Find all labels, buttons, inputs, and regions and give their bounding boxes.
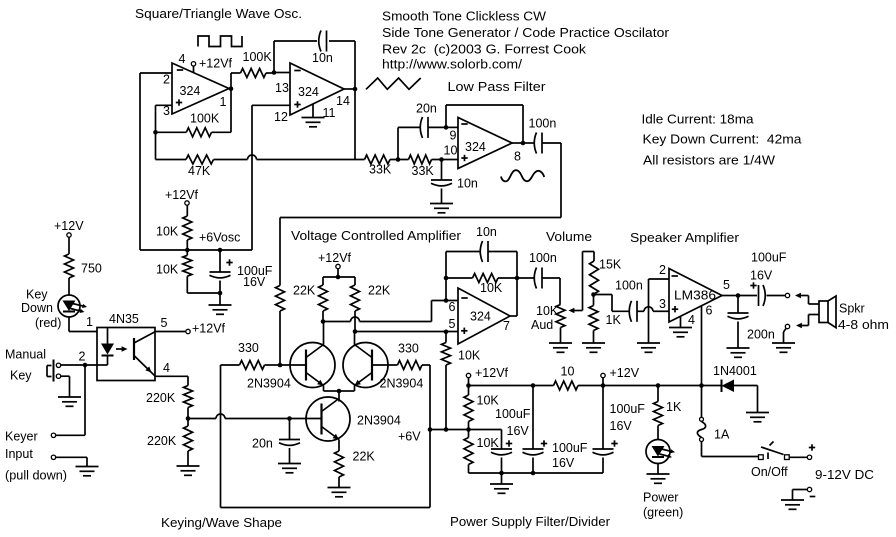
svg-text:100uF: 100uF: [610, 402, 646, 416]
svg-text:2: 2: [163, 73, 170, 87]
note key down current: [643, 133, 802, 147]
wire divider bottom: [187, 292, 220, 294]
label (green): [643, 506, 683, 520]
resistor 100K (U1A feedback): [156, 128, 232, 137]
svg-text:6: 6: [449, 300, 456, 314]
svg-text:100K: 100K: [243, 50, 273, 64]
label 10K pot: [536, 304, 559, 318]
svg-text:1: 1: [220, 95, 227, 109]
svg-text:10K: 10K: [480, 281, 503, 295]
svg-text:+12Vf: +12Vf: [192, 322, 226, 336]
node +6V keying: [428, 427, 433, 432]
svg-text:330: 330: [238, 341, 259, 355]
svg-text:4N35: 4N35: [109, 312, 139, 326]
wire U1D feedback left: [445, 252, 447, 301]
ground U2 pin2: [637, 343, 660, 352]
capacitor 100uF (12V filter): [593, 386, 618, 474]
svg-text:Keyer: Keyer: [5, 430, 38, 444]
svg-text:Keying/Wave Shape: Keying/Wave Shape: [161, 516, 282, 530]
label 22K Q3: [353, 450, 376, 464]
ground 1K volume: [582, 343, 605, 352]
rail psu bottom: [469, 472, 604, 474]
wire pin13: [274, 72, 290, 74]
wire U2 output: [722, 293, 740, 298]
svg-text:16V: 16V: [507, 424, 530, 438]
node pin13 junction: [272, 70, 277, 75]
label (red): [35, 316, 61, 330]
label 9-12V DC: [815, 468, 874, 482]
capacitor 20n (keying): [279, 419, 300, 464]
opto pin label 2: [79, 350, 86, 364]
resistor 10K lower (osc divider): [183, 250, 192, 293]
wire 20n branch vertical: [397, 127, 399, 159]
label 100n VCA: [529, 251, 557, 265]
resistor 100K (U1A out to U1B): [231, 69, 274, 78]
LED key down (red): [58, 295, 87, 317]
U1C pin label 8: [514, 150, 521, 164]
svg-text:http://www.solorb.com/: http://www.solorb.com/: [382, 58, 523, 72]
battery + terminal: [807, 444, 815, 459]
label 10n LPF: [457, 177, 478, 191]
wire fuse to switch: [702, 442, 759, 457]
svg-text:14: 14: [336, 94, 350, 108]
title line 1: [382, 10, 546, 24]
node rail 12Vf: [466, 383, 471, 388]
svg-text:Input: Input: [5, 447, 33, 461]
switch On/Off: [759, 442, 790, 460]
label 16V c1: [507, 424, 530, 438]
label Key: [26, 288, 48, 302]
wire LED to opto pin1: [69, 317, 97, 332]
battery - terminal: [793, 487, 816, 500]
svg-text:16V: 16V: [243, 275, 266, 289]
svg-text:+12V: +12V: [54, 219, 84, 233]
ground manual key: [58, 397, 81, 406]
node fb pin6: [444, 298, 449, 303]
label 15K: [599, 258, 622, 272]
wire U1B output vertical: [354, 41, 356, 160]
svg-text:Key Down Current: 42ma: Key Down Current: 42ma: [643, 133, 802, 147]
svg-text:Square/Triangle Wave Osc.: Square/Triangle Wave Osc.: [135, 7, 302, 21]
label 33K first: [369, 163, 392, 177]
svg-text:Spkr: Spkr: [839, 302, 865, 316]
wire keying line with hop: [188, 414, 322, 419]
wire U1C pin10: [432, 159, 459, 161]
label 100n LPF: [529, 117, 557, 131]
svg-text:4-8 ohm: 4-8 ohm: [838, 318, 889, 332]
svg-text:8: 8: [514, 150, 521, 164]
speaker + terminal: [785, 293, 819, 304]
section label Volume: [546, 230, 592, 244]
svg-text:10K: 10K: [156, 225, 179, 239]
svg-text:750: 750: [81, 262, 102, 276]
op-amp U1D 324 (VCA): [458, 288, 510, 344]
node 22K left bottom: [321, 319, 326, 324]
wire opto pin4: [155, 376, 188, 385]
node U1A output: [229, 86, 234, 91]
svg-text:20n: 20n: [416, 102, 437, 116]
section label Voltage Controlled Amplifier: [291, 229, 461, 243]
wire between 33Ks: [390, 159, 409, 161]
svg-text:+12Vf: +12Vf: [199, 57, 233, 71]
resistor 33K second: [409, 155, 432, 164]
resistor 10K (U1D feedback): [446, 274, 517, 283]
switch Manual Key: [47, 360, 61, 382]
diode 1N4001: [722, 380, 758, 393]
svg-text:10n: 10n: [457, 177, 478, 191]
svg-text:1: 1: [86, 315, 93, 329]
svg-text:200n: 200n: [747, 328, 775, 342]
label 22K right: [368, 284, 391, 298]
potentiometer 10K Aud: [556, 278, 565, 343]
op-amp U1A 324 (oscillator): [172, 63, 229, 114]
svg-text:100n: 100n: [529, 251, 557, 265]
svg-text:10K: 10K: [156, 263, 179, 277]
node 20n junction keying: [287, 416, 292, 421]
svg-text:16V: 16V: [552, 456, 575, 470]
node psu gnd: [499, 471, 504, 476]
svg-text:16V: 16V: [750, 269, 773, 283]
svg-text:13: 13: [275, 81, 289, 95]
svg-text:Power Supply Filter/Divider: Power Supply Filter/Divider: [450, 515, 610, 529]
triangle wave symbol: [366, 78, 421, 89]
node fb mid: [444, 276, 449, 281]
capacitor 100uF (6V filter): [491, 440, 512, 473]
svg-text:1A: 1A: [714, 428, 730, 442]
node 20n junction: [444, 125, 449, 130]
wire key lower to ground: [61, 376, 70, 397]
wire U1D output: [510, 252, 519, 317]
label 2N3904 Q3: [357, 414, 401, 428]
capacitor 100uF (12Vf filter): [523, 386, 548, 474]
svg-text:All resistors are 1/4W: All resistors are 1/4W: [643, 154, 775, 168]
U1A pin 4 power stub +12Vf: [191, 57, 232, 74]
svg-text:100uF: 100uF: [552, 441, 588, 455]
wire osc left vertical: [139, 73, 141, 250]
resistor 15K: [590, 252, 599, 295]
node U1C output: [512, 141, 525, 146]
label 200n: [747, 328, 775, 342]
label 2N3904 Q2: [380, 377, 424, 391]
power +12Vf (VCA): [318, 251, 352, 277]
svg-text:10n: 10n: [312, 51, 333, 65]
sine wave symbol: [501, 170, 544, 181]
node 22K right bottom: [353, 329, 358, 334]
resistor 22K (Q3 emitter): [335, 440, 344, 488]
U2 pin label 4: [688, 313, 695, 327]
wire U2 pin2 to ground: [649, 279, 670, 343]
U1D pin label 5: [449, 317, 456, 331]
label 1K power: [666, 400, 682, 414]
power terminal +12V: [601, 366, 640, 386]
transistor Q3 2N3904: [306, 397, 350, 441]
capacitor 100n (VCA out): [517, 268, 560, 289]
svg-text:324: 324: [180, 84, 201, 98]
U1B pin label 13: [275, 81, 289, 95]
svg-text:Key: Key: [10, 369, 32, 383]
svg-text:+6Vosc: +6Vosc: [199, 231, 240, 245]
node 33K junction: [396, 157, 401, 162]
node emitters junction: [337, 389, 342, 394]
label Keyer: [5, 430, 38, 444]
opto light arrow: [116, 346, 128, 351]
node volume junction: [591, 292, 596, 297]
U1C pin label 10: [444, 144, 458, 158]
U1C pin label 9: [450, 129, 457, 143]
label +6V: [398, 430, 421, 444]
keyer input terminal: [51, 433, 85, 437]
wire U1A output vertical: [230, 73, 232, 132]
svg-text:33K: 33K: [369, 163, 392, 177]
resistor 220K upper: [184, 386, 193, 427]
power +12Vf (osc divider): [165, 188, 199, 205]
wire U1B pin12: [252, 104, 290, 106]
node U1B output: [344, 87, 357, 92]
svg-text:Aud: Aud: [531, 318, 553, 332]
label 20n LPF: [416, 102, 437, 116]
svg-text:22K: 22K: [353, 450, 376, 464]
ground diode: [746, 386, 769, 422]
capacitor 100n (LPF output): [523, 133, 561, 154]
svg-text:4: 4: [179, 52, 186, 66]
U1B pin label 14: [336, 94, 350, 108]
node divider +6V: [466, 427, 471, 432]
label 100uF osc: [237, 264, 273, 278]
svg-text:10K: 10K: [477, 436, 500, 450]
power terminal +12Vf: [466, 366, 508, 386]
svg-text:(red): (red): [35, 316, 61, 330]
capacitor 20n (LPF): [398, 117, 446, 138]
node pin5 tap: [444, 330, 449, 335]
label Aud: [531, 318, 553, 332]
svg-text:330: 330: [398, 342, 419, 356]
title line 3: [382, 43, 587, 57]
wire LED to ground: [657, 464, 659, 475]
svg-text:2: 2: [659, 263, 666, 277]
title line 2: [382, 26, 669, 40]
wire feedback left vertical: [273, 41, 275, 73]
ground 200n: [727, 348, 750, 357]
node psu cap2 bottom: [531, 471, 536, 476]
U1A label 324: [180, 84, 201, 98]
svg-text:22K: 22K: [368, 284, 391, 298]
svg-text:16V: 16V: [610, 419, 633, 433]
node divider mid: [185, 248, 190, 253]
section label Low Pass Filter: [448, 80, 546, 94]
label 330 left: [238, 341, 259, 355]
node pin10 junction: [439, 157, 444, 162]
svg-text:324: 324: [298, 85, 319, 99]
svg-text:Low Pass Filter: Low Pass Filter: [448, 80, 546, 94]
svg-text:1K: 1K: [666, 400, 682, 414]
svg-text:9: 9: [450, 129, 457, 143]
svg-text:10: 10: [561, 365, 575, 379]
svg-text:100uF: 100uF: [751, 251, 787, 265]
node 220K junction: [186, 416, 191, 421]
label Spkr: [839, 302, 865, 316]
svg-text:10: 10: [444, 144, 458, 158]
svg-text:Side Tone Generator / Code Pra: Side Tone Generator / Code Practice Osci…: [382, 26, 669, 40]
resistor 330 (Q1 base): [221, 361, 281, 370]
section label Keying/Wave Shape: [161, 516, 282, 530]
label 100uF c3: [610, 402, 646, 416]
resistor 10K (VCA signal input): [276, 286, 285, 366]
resistor 330 (Q2 base): [372, 361, 430, 370]
title line 4: [382, 58, 523, 72]
svg-text:10n: 10n: [476, 225, 497, 239]
ground keyer input: [76, 467, 99, 476]
svg-text:20n: 20n: [252, 437, 273, 451]
label 10 ohm: [561, 365, 575, 379]
svg-text:Idle Current: 18ma: Idle Current: 18ma: [642, 113, 754, 127]
resistor 10K (divider upper): [464, 386, 473, 430]
wire pin3 vertical: [155, 105, 157, 159]
capacitor 200n: [728, 296, 749, 349]
label 10K lower osc: [156, 263, 179, 277]
ground pot: [549, 343, 572, 352]
svg-text:Volume: Volume: [546, 230, 592, 244]
wire pin6 net with hop: [323, 301, 458, 322]
U1D pin label 7: [503, 319, 510, 333]
svg-text:100n: 100n: [615, 279, 643, 293]
rail +12Vf/+12V: [469, 385, 722, 387]
opto internal LED: [97, 328, 114, 366]
node rail cap2: [531, 383, 536, 388]
svg-text:Down: Down: [21, 301, 53, 315]
ground 220K: [177, 466, 200, 475]
wire Q1 collector: [323, 322, 325, 345]
wire U1C pin9: [446, 126, 458, 128]
op-amp U1B 324 (integrator): [290, 63, 344, 115]
label 1K volume: [606, 313, 622, 327]
resistor 1K (power LED): [654, 386, 663, 440]
U1B label 324: [298, 85, 319, 99]
ground battery: [781, 500, 804, 509]
U1D label 324: [470, 310, 491, 324]
label 750: [81, 262, 102, 276]
optocoupler 4N35 box: [97, 328, 155, 381]
wire LPF out to VCA: [280, 143, 561, 286]
U1C label 324: [465, 140, 486, 154]
label 4-8 ohm: [838, 318, 889, 332]
svg-text:220K: 220K: [147, 434, 177, 448]
U1A pin label 1: [220, 95, 227, 109]
rail 22K top: [323, 275, 355, 280]
resistor 10K (U1D pin5 bias): [442, 332, 451, 430]
capacitor 100n (LM386 input): [629, 301, 644, 322]
wire Q2 emitter: [339, 386, 355, 392]
ground U1B pin11: [302, 105, 325, 127]
U1B pin label 12: [274, 110, 288, 124]
wire LPF feedback: [446, 105, 523, 143]
svg-text:3: 3: [659, 297, 666, 311]
wire osc output line with hop: [214, 155, 365, 159]
label 4N35: [109, 312, 139, 326]
svg-text:5: 5: [161, 316, 168, 330]
wire keyer input vertical: [84, 365, 86, 435]
section label Speaker Amplifier: [630, 231, 739, 245]
label 220K upper: [146, 391, 176, 405]
svg-text:22K: 22K: [293, 284, 316, 298]
svg-text:On/Off: On/Off: [751, 465, 788, 479]
capacitor 10n (U1D feedback): [446, 241, 517, 262]
label On/Off: [751, 465, 788, 479]
capacitor 100uF 16V (osc bypass): [210, 250, 233, 293]
label 10n U1D: [476, 225, 497, 239]
label 16V c3: [610, 419, 633, 433]
ground osc divider: [209, 293, 232, 314]
wire volume to cap: [594, 295, 630, 312]
U1A pin label 3: [163, 104, 170, 118]
square wave symbol: [198, 36, 242, 47]
svg-text:Smooth Tone Clickless CW: Smooth Tone Clickless CW: [382, 10, 546, 24]
label 16V c2: [552, 456, 575, 470]
op-amp U2 LM386: [669, 269, 722, 323]
svg-text:10K: 10K: [477, 394, 500, 408]
svg-text:Rev 2c (c)2003 G. Forrest Coo: Rev 2c (c)2003 G. Forrest Cook: [382, 43, 587, 57]
wire pin5 net: [355, 331, 458, 333]
U2 pin label 3: [659, 297, 666, 311]
svg-text:7: 7: [503, 319, 510, 333]
svg-text:Voltage Controlled Amplifier: Voltage Controlled Amplifier: [291, 229, 461, 243]
label 10n U1B: [312, 51, 333, 65]
resistor 47K: [156, 155, 214, 164]
node rail pin6: [699, 383, 704, 388]
speaker - terminal: [785, 315, 819, 329]
svg-text:+12V: +12V: [610, 366, 640, 380]
svg-text:100K: 100K: [190, 112, 220, 126]
svg-text:(pull down): (pull down): [5, 469, 67, 483]
note idle current: [642, 113, 754, 127]
svg-text:10K: 10K: [536, 304, 559, 318]
power +12V (key down): [54, 219, 84, 237]
transistor Q1 2N3904: [290, 343, 335, 388]
keyer input ground terminal: [51, 455, 87, 466]
label 16V osc: [243, 275, 266, 289]
label 100K coupling: [243, 50, 273, 64]
resistor 10 ohm: [554, 381, 578, 390]
label 100uF output: [751, 251, 787, 265]
wire Q1 emitter: [324, 386, 340, 392]
resistor 10K (divider lower): [464, 430, 473, 474]
label 20n keying: [252, 437, 273, 451]
wire U1A pin2: [140, 72, 172, 74]
label 10K div lower: [477, 436, 500, 450]
label 100K feedback: [190, 112, 220, 126]
svg-text:2N3904: 2N3904: [357, 414, 401, 428]
svg-text:100uF: 100uF: [495, 407, 531, 421]
U1B pin label 11: [323, 106, 336, 120]
opto phototransistor: [134, 332, 155, 376]
svg-text:+12Vf: +12Vf: [318, 251, 352, 265]
wire U2 pin6 to rail: [701, 306, 703, 386]
label 47K: [188, 164, 211, 178]
label 10K upper osc: [156, 225, 179, 239]
label 10K U1D fb: [480, 281, 503, 295]
svg-text:6: 6: [706, 304, 713, 318]
svg-text:Key: Key: [26, 288, 48, 302]
wire U1A pin3: [156, 104, 173, 106]
label 100uF c1: [495, 407, 531, 421]
svg-text:+6V: +6V: [398, 430, 421, 444]
rail +6Vosc: [140, 249, 252, 251]
capacitor 100uF (output): [738, 282, 785, 306]
resistor 22K right: [351, 277, 360, 332]
LED power (green): [646, 440, 675, 464]
ground speaker return: [772, 329, 795, 353]
svg-text:5: 5: [723, 278, 730, 292]
opto pin label 5: [161, 316, 168, 330]
